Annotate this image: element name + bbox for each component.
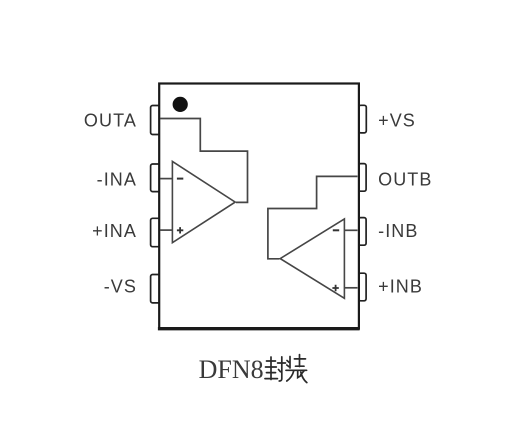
IC package body DFN8 (159, 84, 359, 329)
package bottom edge (thicker) (158, 327, 360, 330)
wire OUTB net (pin7 to op-amp B output) (268, 176, 358, 258)
svg-text:+VS: +VS (378, 110, 416, 130)
pin stub 4 -VS (151, 275, 160, 303)
op-amp A minus sign (177, 178, 183, 180)
pin stub 7 OUTB (359, 164, 367, 192)
svg-text:DFN8: DFN8 (199, 355, 264, 384)
pin stub 2 -INA (151, 164, 160, 192)
op-amp U1B triangle (280, 219, 344, 298)
op-amp A plus sign (177, 227, 183, 233)
svg-text:OUTB: OUTB (378, 170, 432, 190)
wire -INA to op-amp A inverting input (160, 178, 172, 180)
svg-text:OUTA: OUTA (84, 110, 137, 130)
svg-text:-INA: -INA (97, 170, 137, 190)
pin stub 3 +INA (151, 218, 160, 246)
op-amp U1A triangle (172, 161, 235, 242)
wire OUTA net (pin1 to op-amp A output) (160, 119, 248, 203)
wire +INB to op-amp B non-inverting input (344, 287, 357, 289)
wire -INB to op-amp B inverting input (344, 229, 357, 231)
pin stub 1 OUTA (151, 106, 160, 135)
pin 1 marker dot (173, 97, 188, 112)
svg-text:+INA: +INA (92, 221, 137, 241)
pin stub 8 +VS (359, 105, 367, 133)
op-amp B minus sign (333, 229, 339, 231)
svg-text:-VS: -VS (104, 276, 137, 296)
wire +INA to op-amp A non-inverting input (160, 229, 172, 231)
op-amp B plus sign (332, 285, 338, 291)
pin stub 6 -INB (359, 218, 367, 246)
svg-text:+INB: +INB (378, 277, 423, 297)
caption glyph 封 (drawn) (265, 357, 286, 381)
pin stub 5 +INB (359, 273, 367, 301)
svg-text:-INB: -INB (378, 221, 418, 241)
caption glyph 装 (drawn) (286, 355, 307, 383)
